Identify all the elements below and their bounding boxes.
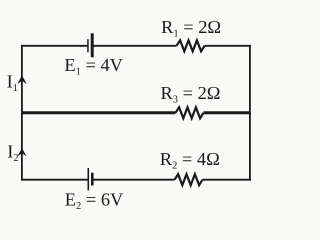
svg-text:R1 = 2Ω: R1 = 2Ω: [161, 17, 221, 40]
resistor R2: [175, 174, 203, 185]
svg-text:E1 = 4V: E1 = 4V: [64, 55, 123, 78]
svg-text:E2 = 6V: E2 = 6V: [65, 190, 124, 213]
wire bottom horizontal segments: [21, 179, 251, 181]
wire middle horizontal (thick): [21, 111, 251, 114]
current arrow I2: [17, 148, 26, 156]
current arrow I1: [17, 75, 26, 84]
resistor R1: [177, 40, 205, 51]
svg-text:R3 = 2Ω: R3 = 2Ω: [161, 83, 221, 106]
battery E1: [87, 33, 94, 57]
wire top horizontal segments: [21, 45, 251, 47]
wire left vertical (node A top to node B bottom): [21, 45, 23, 181]
resistor R3: [176, 107, 204, 118]
svg-text:R2 = 4Ω: R2 = 4Ω: [160, 149, 220, 172]
battery E2: [88, 168, 94, 190]
wire right vertical: [249, 45, 251, 181]
